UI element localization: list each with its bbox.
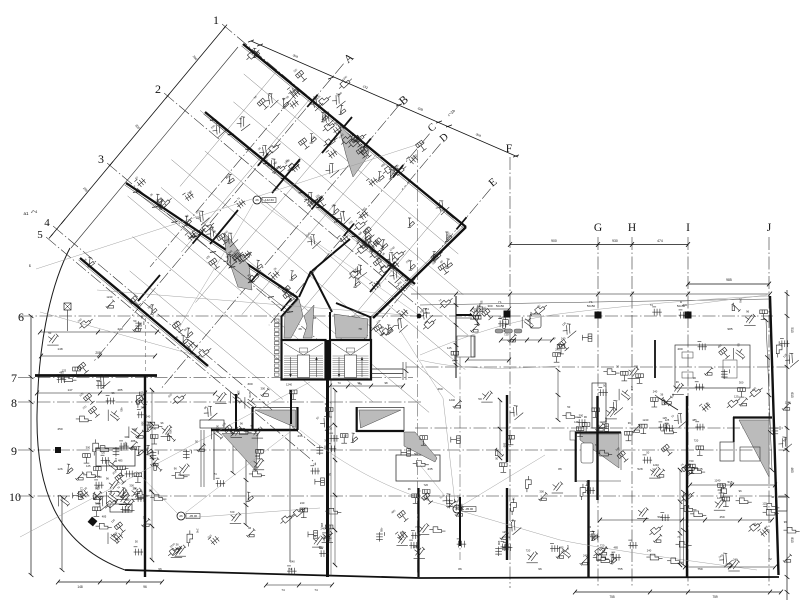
svg-text:6: 6 [18, 310, 24, 324]
svg-text:36: 36 [408, 487, 411, 491]
svg-text:300: 300 [168, 429, 172, 434]
svg-text:96: 96 [106, 477, 109, 481]
svg-text:74: 74 [459, 506, 462, 510]
wall vertical x507 lower [506, 488, 508, 560]
grid line E diagonal [362, 189, 491, 342]
annotation clusters along wing walls [339, 131, 355, 146]
svg-text:36: 36 [143, 515, 146, 519]
svg-text:74: 74 [281, 588, 285, 592]
svg-text:96: 96 [140, 316, 144, 319]
svg-text:755: 755 [617, 567, 622, 571]
svg-text:a1: a1 [23, 211, 29, 216]
svg-text:240: 240 [290, 559, 295, 563]
svg-text:125: 125 [717, 496, 722, 500]
svg-text:300: 300 [579, 414, 584, 418]
grid line G vertical [597, 237, 599, 588]
drop panel D4 walls [733, 416, 772, 418]
grid line 1 diagonal [222, 24, 453, 218]
wing cross wall mid1 [272, 159, 300, 193]
svg-text:96: 96 [248, 526, 251, 530]
grid line 6a horizontal right [406, 366, 788, 368]
svg-text:50: 50 [251, 424, 254, 428]
svg-text:300: 300 [129, 483, 134, 487]
dimension line bottom left [58, 581, 162, 583]
svg-text:78: 78 [358, 327, 362, 331]
svg-text:125: 125 [447, 346, 452, 350]
dimension chain x246 vertical [245, 430, 247, 525]
svg-text:74: 74 [650, 303, 653, 307]
drop panel D1 right wall [296, 407, 298, 430]
grid line 6 horizontal [20, 315, 773, 317]
svg-text:240: 240 [320, 527, 325, 531]
wall vertical x507 upper [506, 395, 508, 462]
dim chain x558 [557, 370, 559, 420]
axis line A-prime diagonal [150, 98, 292, 267]
stair arrows [338, 357, 340, 377]
svg-text:86: 86 [458, 567, 462, 571]
svg-text:300: 300 [124, 435, 129, 439]
svg-text:435: 435 [297, 434, 302, 438]
svg-text:240: 240 [604, 418, 608, 423]
outline top edge right block [420, 299, 770, 305]
grid line 9 horizontal [18, 449, 788, 451]
svg-text:74: 74 [477, 304, 480, 308]
svg-text:240: 240 [561, 336, 566, 340]
annotation clusters lower scatter [106, 300, 115, 309]
svg-text:74: 74 [602, 549, 605, 553]
svg-text:36: 36 [319, 545, 322, 549]
slab symbol bottom left [88, 517, 98, 527]
grid line D diagonal [402, 144, 441, 190]
svg-text:567: 567 [657, 515, 662, 519]
white rects below D4 [720, 442, 734, 461]
svg-text:5: 5 [37, 229, 43, 241]
svg-text:125: 125 [762, 502, 767, 506]
diagonal brace G-H [659, 398, 678, 410]
svg-text:50: 50 [479, 301, 483, 304]
dashed extension x145 above grid7 [145, 318, 147, 374]
svg-text:474: 474 [657, 239, 663, 243]
svg-text:420: 420 [117, 327, 122, 331]
svg-text:96: 96 [746, 310, 749, 314]
svg-text:50: 50 [195, 440, 198, 444]
svg-text:50: 50 [495, 457, 498, 461]
svg-text:240: 240 [97, 475, 102, 479]
svg-text:985: 985 [726, 278, 732, 282]
svg-text:208: 208 [95, 351, 101, 355]
ramp shade above stairs left [284, 299, 303, 338]
svg-text:300: 300 [630, 386, 634, 391]
room rect bottom-left A [96, 448, 135, 466]
svg-text:9: 9 [11, 444, 17, 458]
stair treads [333, 356, 369, 378]
svg-text:74: 74 [595, 443, 598, 447]
grid line F vertical [509, 157, 511, 588]
wall vertical x418 [417, 488, 419, 577]
svg-text:485: 485 [109, 490, 113, 495]
svg-text:36: 36 [616, 365, 619, 369]
stair flight V [284, 343, 304, 355]
svg-text:485: 485 [59, 371, 64, 375]
column node x417/6 [417, 314, 422, 319]
svg-text:720: 720 [694, 438, 699, 442]
grid line A diagonal [93, 64, 344, 363]
dimension line grid6 left [40, 331, 157, 333]
svg-text:460: 460 [437, 387, 442, 391]
svg-text:485: 485 [118, 458, 123, 462]
svg-text:74: 74 [415, 525, 418, 529]
svg-text:96: 96 [693, 376, 696, 380]
svg-text:240: 240 [196, 529, 200, 534]
junction mid wall upper [329, 312, 331, 341]
svg-text:50: 50 [567, 405, 570, 409]
grid line B diagonal [161, 106, 399, 389]
svg-text:485: 485 [102, 515, 107, 519]
svg-text:26: 26 [255, 198, 259, 202]
dimension line left edge vertical [30, 316, 32, 575]
svg-text:400: 400 [677, 347, 682, 351]
svg-text:74: 74 [337, 381, 341, 385]
svg-text:96: 96 [784, 520, 787, 524]
svg-text:635: 635 [697, 467, 702, 471]
svg-text:300: 300 [739, 381, 744, 385]
wall vertical x460 short [459, 497, 461, 546]
svg-text:96: 96 [158, 567, 162, 571]
drop panel D2 top thin [356, 407, 404, 409]
svg-text:485: 485 [614, 545, 619, 549]
svg-text:755: 755 [609, 595, 615, 599]
svg-text:125: 125 [734, 394, 739, 398]
stair arrows [290, 357, 292, 377]
column I/6 [685, 312, 692, 319]
svg-text:720: 720 [101, 450, 106, 454]
dim line y567 right [685, 566, 775, 568]
svg-text:50: 50 [646, 450, 649, 454]
leader lines thin [20, 142, 769, 570]
dimension chains along walls [213, 120, 408, 280]
svg-text:610: 610 [790, 392, 794, 398]
wing cross wall junction [370, 262, 395, 292]
svg-text:8: 8 [11, 396, 17, 410]
room rect bottom-left B [110, 504, 132, 512]
svg-text:300: 300 [140, 421, 144, 426]
svg-text:125: 125 [574, 420, 579, 424]
wing wall W3 interior [126, 183, 298, 298]
svg-text:460: 460 [790, 467, 794, 473]
junction wall to box B right [336, 303, 370, 317]
svg-text:50: 50 [478, 397, 482, 401]
svg-text:126: 126 [57, 467, 62, 471]
svg-text:300: 300 [237, 390, 241, 395]
svg-text:74: 74 [313, 463, 316, 467]
svg-text:96: 96 [143, 585, 147, 589]
level marker bottom left [177, 512, 185, 520]
svg-text:36: 36 [676, 380, 679, 384]
svg-text:⤺4: ⤺4 [31, 209, 38, 214]
svg-text:720: 720 [230, 510, 235, 514]
window detail left grid6 [64, 303, 71, 310]
svg-text:26: 26 [179, 514, 183, 518]
wall x236 above D1 [235, 394, 237, 429]
svg-text:50: 50 [135, 540, 138, 544]
stairwell left box [282, 340, 326, 380]
svg-text:300: 300 [539, 489, 544, 493]
svg-text:96: 96 [739, 489, 742, 493]
svg-text:-05.00: -05.00 [465, 507, 474, 511]
svg-text:240: 240 [585, 481, 589, 486]
svg-text:1240: 1240 [642, 418, 648, 422]
svg-text:485: 485 [634, 364, 639, 368]
svg-text:Ø50: Ø50 [424, 311, 430, 315]
junction funnel wall left short [299, 271, 311, 297]
svg-text:435: 435 [427, 467, 432, 471]
svg-text:720: 720 [140, 391, 144, 396]
extension line x417.5 vertical [417, 150, 419, 575]
drop panel D1 bottom wall long [211, 429, 298, 431]
svg-text:240: 240 [717, 488, 722, 492]
svg-text:1240: 1240 [714, 478, 720, 482]
svg-text:258: 258 [725, 562, 730, 566]
stairwell right box [330, 340, 371, 380]
dim line y520 right [600, 519, 772, 521]
svg-text:300: 300 [254, 465, 259, 469]
ramp shade wing upper [340, 125, 369, 177]
double vertical x202 [200, 430, 202, 487]
stair mid wall long vertical [326, 340, 329, 577]
svg-text:810: 810 [790, 537, 794, 543]
grid line J vertical [768, 237, 770, 588]
annotation clusters along lower walls [136, 493, 146, 502]
svg-text:1240: 1240 [449, 398, 455, 402]
svg-text:2: 2 [155, 82, 161, 96]
svg-text:96: 96 [95, 487, 98, 491]
svg-text:450: 450 [57, 427, 62, 431]
drop panel D2 bottom wall [356, 430, 404, 432]
svg-text:36: 36 [176, 542, 179, 546]
svg-text:3: 3 [98, 152, 104, 166]
svg-text:720: 720 [423, 483, 428, 487]
svg-text:50: 50 [153, 427, 156, 431]
svg-text:125: 125 [502, 530, 507, 534]
column G/6 [595, 312, 602, 319]
wall vertical x597 [596, 396, 598, 500]
svg-text:96: 96 [112, 391, 115, 395]
svg-text:300: 300 [497, 541, 501, 546]
svg-text:240: 240 [653, 389, 658, 393]
junction funnel wall left down [281, 298, 298, 317]
drop panel D3 shade [580, 434, 619, 468]
grid line I vertical [687, 237, 689, 588]
svg-text:50: 50 [133, 319, 136, 323]
stair landing [298, 355, 310, 378]
svg-text:300: 300 [324, 438, 329, 442]
svg-text:240: 240 [647, 549, 652, 553]
svg-text:528: 528 [637, 467, 642, 471]
svg-text:300: 300 [255, 454, 260, 458]
drop shade big triangle below D1 [222, 434, 258, 472]
wing edge SE junction wall [373, 227, 466, 318]
svg-text:1: 1 [213, 13, 219, 27]
grid line 5 diagonal [46, 237, 316, 463]
wing extension lines [128, 72, 469, 413]
wing wall W4 outer [80, 258, 208, 366]
wall vertical x687 [686, 396, 688, 577]
svg-text:G: G [594, 222, 602, 234]
dimension line along grid 1-5 edge [51, 27, 225, 236]
dimension line y356 left [41, 355, 155, 357]
dimension line y294 [411, 293, 770, 295]
svg-text:H: H [628, 222, 636, 234]
room rect mid-bottom [396, 455, 440, 481]
ramp shade wing mid [224, 233, 252, 290]
stair bottom dimension [330, 385, 403, 387]
svg-text:485: 485 [559, 545, 564, 549]
wing cross wall low [138, 275, 160, 301]
column F/6 [504, 311, 511, 318]
svg-text:720: 720 [526, 548, 531, 552]
wing edge NW thin [71, 47, 238, 248]
svg-text:485: 485 [119, 407, 123, 412]
stair corridor double line [371, 368, 403, 370]
annotation clusters wing scatter [368, 246, 384, 260]
grid line C diagonal [269, 134, 430, 326]
dimension line I-J [688, 283, 769, 285]
dimension line bottom right [575, 591, 781, 593]
wing wall W1 outer [243, 44, 466, 227]
svg-text:930: 930 [612, 239, 618, 243]
svg-text:86: 86 [558, 467, 562, 471]
svg-text:J: J [767, 222, 772, 234]
extension line x460 vertical [459, 357, 461, 560]
column square grid9 left [55, 447, 61, 453]
svg-text:74: 74 [288, 567, 292, 571]
svg-text:36: 36 [660, 393, 663, 397]
drop panel D2b shade [404, 432, 437, 462]
svg-text:96: 96 [161, 421, 164, 425]
svg-text:1240: 1240 [106, 295, 112, 299]
svg-text:240: 240 [114, 458, 118, 463]
wall stub x655 stair right [654, 340, 656, 378]
svg-text:240: 240 [566, 545, 570, 550]
stair treads [284, 356, 323, 378]
stair landing [345, 355, 357, 378]
drop panel D2 right edge [403, 407, 405, 431]
svg-text:96: 96 [240, 422, 243, 426]
svg-text:I: I [686, 222, 690, 234]
svg-text:240: 240 [733, 557, 738, 561]
svg-text:50: 50 [414, 452, 417, 456]
level marker bottom mid [453, 505, 461, 513]
svg-text:300: 300 [86, 446, 91, 450]
svg-text:240: 240 [300, 501, 305, 505]
svg-text:1240: 1240 [785, 400, 791, 404]
svg-text:759: 759 [712, 595, 718, 599]
svg-text:50x50: 50x50 [587, 304, 596, 308]
svg-text:720: 720 [504, 332, 509, 336]
equipment rectangle I-J [675, 345, 750, 388]
svg-text:485: 485 [692, 418, 697, 422]
grid line 8a horizontal right [415, 427, 788, 429]
svg-text:485: 485 [529, 312, 533, 317]
wall along grid7 left [35, 374, 157, 377]
svg-text:-142.60: -142.60 [264, 198, 274, 202]
svg-text:50: 50 [603, 383, 606, 387]
wing wall W2 interior [205, 112, 415, 284]
svg-text:125: 125 [665, 418, 670, 422]
svg-text:74: 74 [314, 588, 318, 592]
svg-text:36: 36 [512, 497, 516, 500]
dim chain x233 [232, 433, 234, 473]
drop panel D4 shade [739, 420, 769, 477]
svg-text:300: 300 [215, 425, 219, 430]
svg-text:240: 240 [738, 298, 742, 303]
svg-text:74: 74 [684, 499, 687, 503]
svg-text:485: 485 [413, 545, 418, 549]
junction box A left wall upper [281, 316, 283, 341]
svg-text:148: 148 [77, 585, 83, 589]
svg-text:36: 36 [298, 327, 302, 331]
svg-text:125: 125 [86, 464, 91, 468]
svg-text:240: 240 [583, 553, 588, 557]
svg-text:125: 125 [80, 487, 84, 492]
outline left curved edge [37, 248, 125, 570]
dimension line along A-E edge [251, 41, 518, 157]
svg-text:36: 36 [588, 525, 591, 529]
drop panel D3 inner box [581, 443, 593, 463]
drop panel D3 walls [575, 431, 621, 433]
dimension line y393 left [37, 392, 215, 394]
stair flight V [333, 343, 351, 355]
wall thin x290 lower [289, 424, 291, 562]
grid line 8 horizontal [18, 401, 422, 403]
svg-text:50: 50 [313, 534, 316, 538]
wall vertical x291 short [290, 390, 292, 424]
dimension line x62 bottom left [61, 497, 63, 570]
outline right wall slanted [770, 296, 779, 575]
svg-text:1240: 1240 [286, 382, 292, 386]
svg-text:50: 50 [48, 331, 51, 335]
grid line 7 horizontal [18, 377, 413, 379]
grid line 2 diagonal [164, 93, 422, 310]
svg-text:96: 96 [584, 415, 587, 419]
svg-text:1240: 1240 [248, 392, 252, 398]
svg-text:720: 720 [328, 427, 333, 431]
stair teeth strip [275, 319, 280, 376]
junction funnel wall right [312, 239, 350, 271]
dimension line below stair wall [266, 584, 332, 586]
ramp shade above stairs right [334, 314, 368, 338]
svg-text:74: 74 [358, 382, 362, 386]
grid line 4 diagonal [53, 226, 315, 446]
svg-text:96: 96 [538, 567, 542, 571]
svg-text:50: 50 [688, 462, 691, 466]
svg-text:240: 240 [474, 309, 479, 313]
F column detail group [455, 296, 457, 378]
small room rect mid-left [200, 420, 224, 428]
svg-text:50: 50 [327, 473, 331, 476]
svg-text:300: 300 [260, 386, 265, 390]
svg-text:485: 485 [379, 527, 383, 532]
svg-text:515: 515 [727, 480, 732, 484]
drop panel D1 shade [255, 410, 296, 428]
wall vertical x145 [144, 375, 146, 577]
svg-text:300: 300 [325, 402, 330, 406]
svg-text:300: 300 [683, 303, 688, 307]
grid line H vertical [631, 237, 633, 588]
svg-text:10: 10 [9, 490, 21, 504]
svg-text:510: 510 [790, 327, 794, 333]
svg-text:72: 72 [768, 557, 772, 561]
